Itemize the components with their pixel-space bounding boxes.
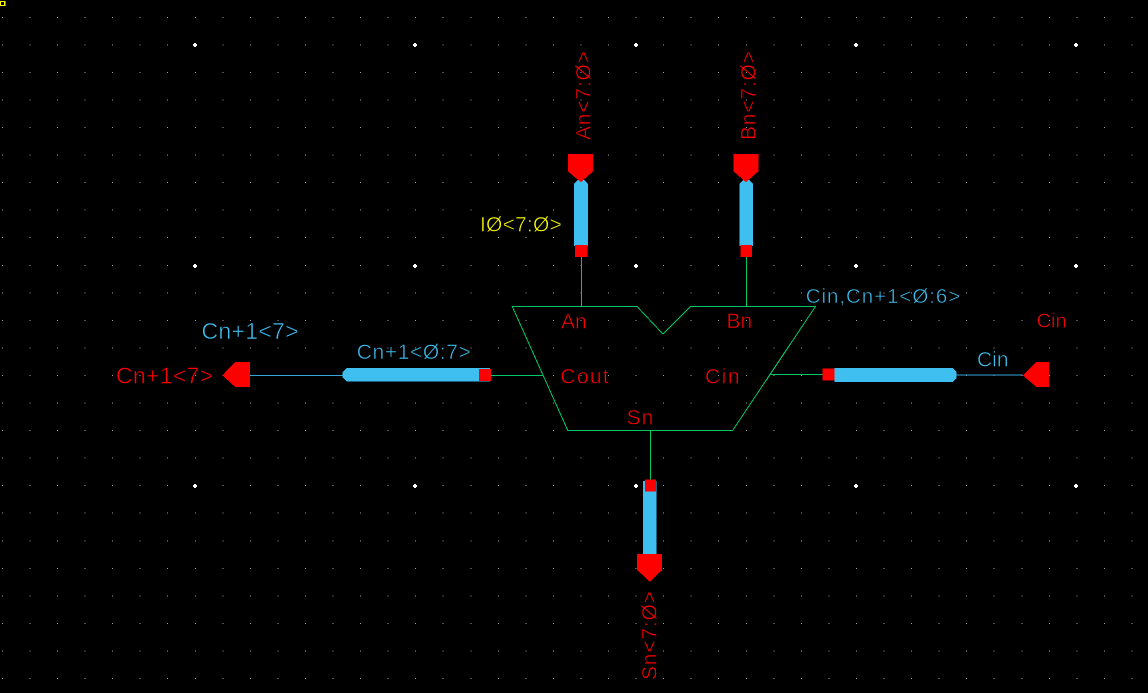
svg-text:Bn: Bn (727, 310, 753, 333)
wire An (vertical green) (581, 257, 583, 307)
bus Bn vertical (wide cyan) (739, 180, 753, 246)
bus Cn+1<0:7> horizontal (wide cyan) (343, 368, 490, 382)
svg-text:Sn<7:Ø>: Sn<7:Ø> (639, 590, 662, 680)
wire narrow cyan right (to Cin pin) (957, 374, 1023, 376)
wire Bn (vertical green) (746, 257, 748, 307)
svg-text:An: An (561, 311, 587, 334)
bus Cin,Cn+1<0:6> horizontal (wide cyan) (835, 368, 957, 382)
origin marker (0, 1, 5, 6)
wire Sn (vertical green) (650, 431, 652, 480)
pin symbol An<7:0> (red pentagon down) (568, 154, 593, 182)
junction square right bus left end (823, 369, 835, 381)
svg-text:IØ<7:Ø>: IØ<7:Ø> (480, 214, 562, 237)
svg-text:Cn+1<7>: Cn+1<7> (202, 318, 299, 344)
svg-text:Cin: Cin (705, 366, 741, 389)
svg-text:Cn+1<7>: Cn+1<7> (116, 363, 213, 389)
junction square left bus right end (479, 369, 491, 381)
svg-text:Cout: Cout (560, 365, 610, 388)
wire Cout (horizontal green) (491, 375, 543, 377)
adder symbol U1 (full-adder trapezoid with notch) (512, 307, 815, 431)
svg-text:Cin: Cin (1037, 311, 1067, 333)
pin symbol Cn+1<7> (red arrow left) (222, 362, 250, 387)
svg-text:Cin,Cn+1<Ø:6>: Cin,Cn+1<Ø:6> (806, 285, 961, 308)
pin symbol Bn<7:0> (red pentagon down) (734, 154, 759, 182)
wire narrow cyan left (to Cn+1<7> pin) (250, 374, 343, 376)
svg-text:An<7:Ø>: An<7:Ø> (573, 50, 596, 140)
bus An vertical (wide cyan) (574, 180, 588, 246)
pin symbol Sn<7:0> (red pentagon down) (637, 554, 662, 582)
bus Sn vertical (wide cyan) (643, 481, 657, 555)
junction square B bus (740, 245, 752, 257)
junction square A bus (575, 245, 587, 257)
svg-text:Cn+1<Ø:7>: Cn+1<Ø:7> (357, 341, 472, 364)
pin symbol Cin (red arrow left) (1023, 362, 1049, 387)
wire Cin (horizontal green) (770, 374, 823, 376)
svg-text:Bn<7:Ø>: Bn<7:Ø> (738, 50, 761, 140)
svg-text:Sn: Sn (627, 407, 655, 430)
junction square S bus (645, 480, 656, 492)
svg-text:Cin: Cin (977, 349, 1009, 372)
